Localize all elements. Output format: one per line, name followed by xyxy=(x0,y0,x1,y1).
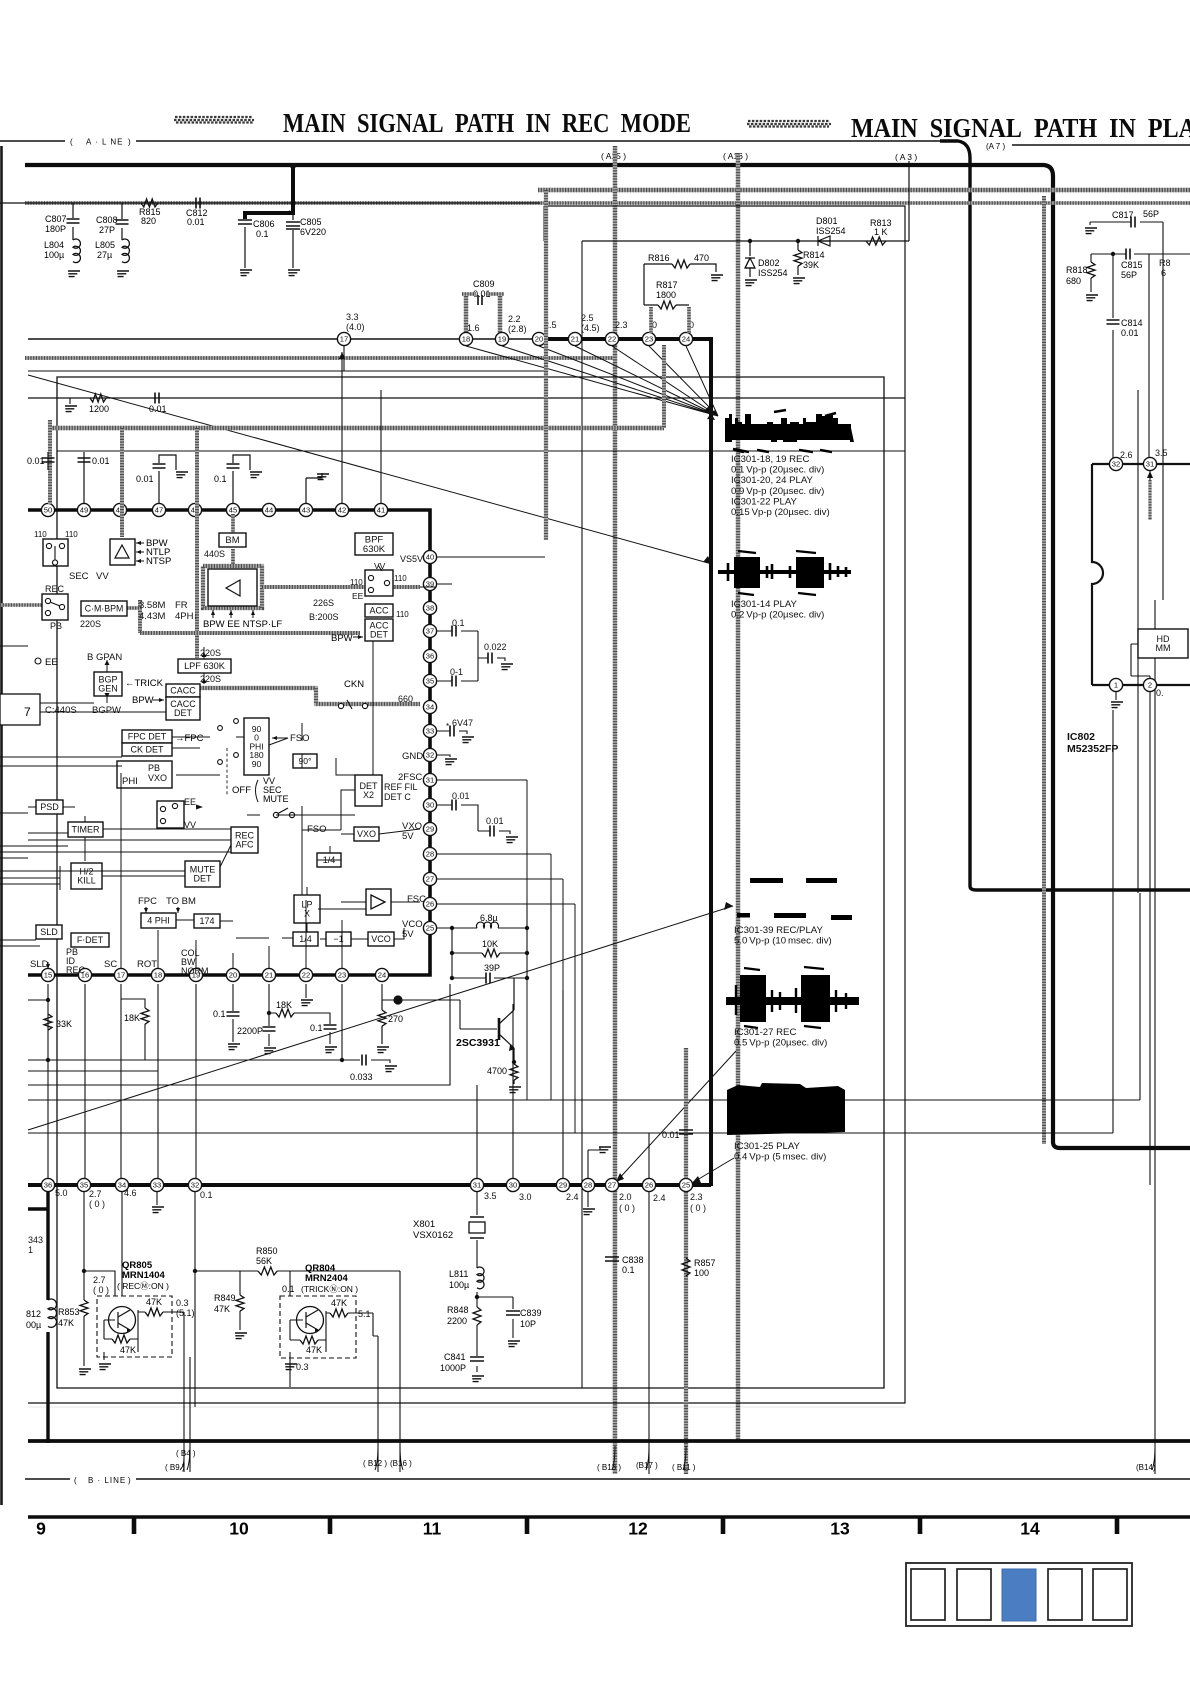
switch CKN xyxy=(338,679,367,709)
resistor R818 xyxy=(1066,262,1095,292)
resistor 18K (pin21) xyxy=(269,1000,330,1044)
node B9 xyxy=(165,1446,190,1472)
svg-text:1.6: 1.6 xyxy=(467,323,480,333)
svg-text:0.01: 0.01 xyxy=(486,816,504,826)
svg-text:56P: 56P xyxy=(1143,209,1159,219)
svg-text:39K: 39K xyxy=(803,260,819,270)
svg-text:31: 31 xyxy=(1146,460,1154,469)
node IC301 pin 36 xyxy=(423,649,436,662)
wire R817 to pin24 (hatched) xyxy=(687,307,691,333)
svg-text:←TRICK: ←TRICK xyxy=(125,678,164,689)
wire B17 drop xyxy=(648,1192,650,1474)
svg-text:812: 812 xyxy=(26,1309,41,1319)
node IC301 pin 24 xyxy=(375,968,388,981)
svg-text:26: 26 xyxy=(426,900,434,909)
svg-text:31: 31 xyxy=(426,776,434,785)
node IC301 pin 29 xyxy=(423,822,436,835)
svg-text:40: 40 xyxy=(426,553,434,562)
svg-text:0.01: 0.01 xyxy=(27,456,45,466)
svg-text:( 0 ): ( 0 ) xyxy=(93,1285,109,1295)
wire pin31 stub xyxy=(1149,471,1151,480)
wire pin15-19 drops xyxy=(48,984,196,1178)
svg-text:*: * xyxy=(446,722,449,731)
svg-text:C815: C815 xyxy=(1121,260,1143,270)
svg-text:30: 30 xyxy=(509,1181,517,1190)
wire hatched vertical A16 xyxy=(736,153,740,1440)
svg-text:PSD: PSD xyxy=(40,802,59,812)
svg-text:ACC: ACC xyxy=(369,606,389,616)
wire hatched 226S to pin39 xyxy=(262,585,420,589)
wire hatched 220S run xyxy=(140,600,360,633)
node A7 xyxy=(986,142,1190,151)
svg-text:32: 32 xyxy=(426,751,434,760)
wire leader diagonal to waveform 3 xyxy=(28,906,733,1130)
svg-text:KILL: KILL xyxy=(77,876,96,886)
node IC301 pin 18 xyxy=(459,332,472,345)
svg-text:VS5V: VS5V xyxy=(400,554,423,564)
wire hatched vertical x546 xyxy=(544,190,548,540)
junction dot xyxy=(393,995,402,1004)
wire B9 drop xyxy=(189,1357,191,1472)
svg-text:47K: 47K xyxy=(306,1345,322,1355)
svg-text:BGPW: BGPW xyxy=(92,705,121,716)
svg-text:( A16 ): ( A16 ) xyxy=(723,151,748,161)
label OFF VV/SEC/MUTE xyxy=(232,776,289,804)
svg-text:4.6: 4.6 xyxy=(124,1188,137,1198)
node IC801 pin 33 xyxy=(150,1178,163,1191)
wire rec path right (thick) xyxy=(540,339,711,1186)
node IC301 pin 17 xyxy=(337,332,350,345)
label waveform 5 xyxy=(734,1141,826,1163)
svg-text:OFF: OFF xyxy=(232,785,251,796)
svg-text:100: 100 xyxy=(694,1268,709,1278)
wire B bus (thick) xyxy=(28,1439,1190,1443)
resistor 10K xyxy=(482,939,500,957)
svg-text:0.01: 0.01 xyxy=(452,791,470,801)
node B16 xyxy=(390,1446,412,1470)
svg-text:R849: R849 xyxy=(214,1293,236,1303)
block F DET xyxy=(71,933,109,947)
capacitor C817 xyxy=(1112,209,1159,228)
svg-text:0.01: 0.01 xyxy=(187,217,205,227)
svg-text:39P: 39P xyxy=(484,963,500,973)
wire pin33 cap xyxy=(436,731,467,734)
svg-text:D801: D801 xyxy=(816,216,838,226)
svg-text:FPC DET: FPC DET xyxy=(128,732,167,742)
wire C809 top (hatched) xyxy=(462,292,504,295)
resistor 270 xyxy=(378,1000,403,1044)
wire pin40 rail xyxy=(436,557,545,584)
block chroma amp (left triangle) xyxy=(208,569,257,606)
capacitor C807 xyxy=(45,203,80,240)
wire hatched pin31 drop xyxy=(1148,480,1151,520)
svg-text:IC301-18, 19 REC: IC301-18, 19 REC xyxy=(731,454,809,465)
block 90deg xyxy=(293,754,317,768)
svg-text:0.022: 0.022 xyxy=(484,642,507,652)
wire hatched pin46 riser xyxy=(195,428,199,658)
svg-text:6: 6 xyxy=(1161,268,1166,278)
capacitor C815 xyxy=(1121,249,1143,281)
svg-text:5.1: 5.1 xyxy=(358,1309,371,1319)
ground (R853) xyxy=(79,1369,91,1375)
svg-text:CACC: CACC xyxy=(170,686,196,696)
capacitor 0.01 (pin25 riser) xyxy=(662,1130,693,1140)
svg-text:18K: 18K xyxy=(124,1013,140,1023)
resistor 47K (QR804 fb) xyxy=(300,1336,322,1355)
svg-text:REC: REC xyxy=(45,584,65,594)
page indicator block xyxy=(906,1563,1132,1626)
svg-text:3.0: 3.0 xyxy=(519,1192,532,1202)
node IC802 pin 31 xyxy=(1143,457,1156,470)
svg-text:17: 17 xyxy=(340,335,348,344)
svg-text:R814: R814 xyxy=(803,250,825,260)
wire pin32 long drop xyxy=(194,1192,196,1407)
capacitor C841 xyxy=(440,1352,484,1373)
svg-text:2.0: 2.0 xyxy=(619,1192,632,1202)
svg-text:220S: 220S xyxy=(80,619,101,629)
svg-text:R8: R8 xyxy=(1159,258,1171,268)
ground (0.033) xyxy=(385,1066,397,1072)
svg-text:35: 35 xyxy=(426,677,434,686)
svg-text:C·M·BPM: C·M·BPM xyxy=(85,604,124,614)
resistor 4700 xyxy=(487,1062,518,1084)
wire pin 31/28/27 rails xyxy=(436,780,563,990)
svg-text:B:200S: B:200S xyxy=(309,612,339,622)
node IC301 pin 42 xyxy=(335,503,348,516)
svg-text:42: 42 xyxy=(338,506,346,515)
svg-text:VV: VV xyxy=(374,561,386,571)
wire hatched amp surround xyxy=(203,566,262,608)
block 1/4 a xyxy=(317,853,341,867)
ground (pin28 above) xyxy=(599,1147,611,1153)
wire hatched vertical right xyxy=(1042,196,1046,1144)
node IC301 pin 33 xyxy=(423,724,436,737)
node IC301 pin 45 xyxy=(226,503,239,516)
svg-text:0.1 Vp-p (20µsec. div): 0.1 Vp-p (20µsec. div) xyxy=(731,465,824,476)
svg-text:2SC3931: 2SC3931 xyxy=(456,1037,500,1049)
svg-text:1: 1 xyxy=(28,1245,33,1255)
wire pin17 stub xyxy=(343,346,345,371)
wire pins29/26/30/31 risers xyxy=(477,990,649,1178)
node IC301 pin 38 xyxy=(423,601,436,614)
svg-text:0.4 Vp-p (5 msec. div): 0.4 Vp-p (5 msec. div) xyxy=(734,1152,826,1163)
svg-text:): ) xyxy=(128,138,131,147)
svg-text:28: 28 xyxy=(584,1181,592,1190)
capacitor 0.01 (pin 49) xyxy=(78,452,110,504)
block 1/4 b xyxy=(293,932,318,946)
ground (pin47 cap) xyxy=(176,472,188,478)
wire xyxy=(47,420,49,470)
svg-text:1800: 1800 xyxy=(656,290,676,300)
svg-text:(2.8): (2.8) xyxy=(508,324,527,334)
svg-text:36: 36 xyxy=(44,1181,52,1190)
svg-text:2.6: 2.6 xyxy=(1120,450,1133,460)
svg-text:0.1: 0.1 xyxy=(200,1190,213,1200)
node IC801 pin 31 xyxy=(470,1178,483,1191)
svg-text:AFC: AFC xyxy=(236,840,255,850)
svg-text:44: 44 xyxy=(265,506,273,515)
ground (pin45 cap) xyxy=(250,472,262,478)
resistor R857 xyxy=(682,1258,716,1278)
svg-text:34: 34 xyxy=(426,703,434,712)
wire hatched pin50 riser xyxy=(48,420,52,504)
svg-text:33K: 33K xyxy=(56,1019,72,1029)
svg-text:C808: C808 xyxy=(96,215,118,225)
block BPF 630K xyxy=(355,533,393,555)
svg-text:R848: R848 xyxy=(447,1305,469,1315)
svg-text:(5.1): (5.1) xyxy=(176,1308,195,1318)
svg-text:43: 43 xyxy=(302,506,310,515)
svg-text:0.: 0. xyxy=(1156,688,1164,698)
svg-text:4700: 4700 xyxy=(487,1066,507,1076)
svg-text:22: 22 xyxy=(608,335,616,344)
svg-text:( B4 ): ( B4 ) xyxy=(176,1449,196,1458)
block VXO xyxy=(354,827,379,841)
wire mesh e xyxy=(307,758,366,932)
op-amp IC802 body xyxy=(1092,464,1190,685)
svg-text:0.3: 0.3 xyxy=(176,1298,189,1308)
svg-text:7: 7 xyxy=(24,705,31,719)
svg-text:VSX0162: VSX0162 xyxy=(413,1230,453,1241)
svg-text:C807: C807 xyxy=(45,214,67,224)
svg-text:21: 21 xyxy=(265,971,273,980)
capacitor 0.1 (pin 45) xyxy=(214,455,250,504)
svg-text:→FPC: →FPC xyxy=(175,733,204,744)
wire long vertical x1138a xyxy=(1137,390,1139,893)
op-amp IC301 body outline xyxy=(28,510,430,975)
resistor R850 xyxy=(256,1246,278,1275)
svg-text:27µ: 27µ xyxy=(97,250,112,260)
wire B12 drop xyxy=(377,1336,379,1472)
svg-text:90°: 90° xyxy=(299,756,312,766)
labels under chroma amp xyxy=(203,610,282,630)
block BGP GEN xyxy=(94,672,122,696)
capacitor C838 xyxy=(605,1255,644,1275)
ruler line xyxy=(28,1515,1190,1518)
wire hatched vertical A15/B13 xyxy=(613,146,617,1474)
capacitor 39P xyxy=(484,963,500,984)
svg-text:2200P: 2200P xyxy=(237,1026,263,1036)
svg-text:FSO: FSO xyxy=(290,733,310,744)
svg-text:14: 14 xyxy=(1020,1519,1040,1539)
block TIMER xyxy=(68,822,103,837)
node IC301 pin 19 xyxy=(189,968,202,981)
wire thick stub xyxy=(28,1207,48,1210)
ground (C806) xyxy=(240,270,252,276)
svg-text:2.4: 2.4 xyxy=(653,1193,666,1203)
ground (C817) xyxy=(1085,228,1097,234)
svg-text:C817: C817 xyxy=(1112,210,1134,220)
svg-text:4 PHI: 4 PHI xyxy=(147,916,170,926)
label waveform 4 xyxy=(734,1027,827,1049)
resistor R814 xyxy=(794,241,825,275)
capacitor 0.1 (pin21 branch) xyxy=(310,1023,337,1033)
node IC301 pin 26 xyxy=(423,897,436,910)
ground (R818) xyxy=(1086,295,1098,301)
node IC301 pin 20 xyxy=(532,332,545,345)
ground (C805) xyxy=(288,270,300,276)
wire QR804 down xyxy=(289,1360,291,1387)
node B14 xyxy=(1136,1446,1156,1472)
svg-text:*: * xyxy=(288,209,291,218)
svg-text:TIMER: TIMER xyxy=(72,825,100,835)
svg-text:2.7: 2.7 xyxy=(89,1189,102,1199)
node B17 xyxy=(636,1446,658,1470)
svg-text:C805: C805 xyxy=(300,217,322,227)
ground (270) xyxy=(377,1047,389,1053)
svg-text:0.1: 0.1 xyxy=(310,1023,323,1033)
svg-text:23: 23 xyxy=(645,335,653,344)
svg-text:MAIN SIGNAL PATH IN REC M: MAIN SIGNAL PATH IN REC MODE xyxy=(283,108,691,138)
svg-text:EE: EE xyxy=(184,797,196,807)
svg-text:2.7: 2.7 xyxy=(93,1275,106,1285)
svg-text:( 0 ): ( 0 ) xyxy=(619,1203,635,1213)
svg-text:(: ( xyxy=(70,138,73,147)
block SLD xyxy=(36,925,62,939)
svg-text:27: 27 xyxy=(608,1181,616,1190)
svg-text:C839: C839 xyxy=(520,1308,542,1318)
wire C809 right leg (hatched) xyxy=(498,296,502,336)
wire long rail y451 xyxy=(57,450,905,452)
node IC801 pin 28 xyxy=(581,1178,594,1191)
node IC801 pin 30 xyxy=(506,1178,519,1191)
svg-text:29: 29 xyxy=(559,1181,567,1190)
wire hatched pin25 riser xyxy=(684,1048,688,1178)
svg-text:680: 680 xyxy=(1066,276,1081,286)
block EE/VV switch xyxy=(157,801,184,828)
wire hatched REC feed xyxy=(0,603,42,607)
svg-text:NTSP: NTSP xyxy=(146,556,171,567)
svg-text:00µ: 00µ xyxy=(26,1320,41,1330)
svg-text:TO BM: TO BM xyxy=(166,896,196,907)
ground (0.1b) xyxy=(325,1047,337,1053)
node IC802 pin 32 xyxy=(1109,457,1122,470)
svg-text:270: 270 xyxy=(388,1014,403,1024)
wire pin33 gnd stub xyxy=(156,1192,158,1205)
svg-text:IC301-22 PLAY: IC301-22 PLAY xyxy=(731,496,798,507)
block DET X2 xyxy=(355,775,382,806)
block -1 xyxy=(326,932,351,946)
svg-text:38: 38 xyxy=(426,604,434,613)
svg-text:R817: R817 xyxy=(656,280,678,290)
wire R817 to pin23 (hatched) xyxy=(649,307,653,333)
block sync separator (triangle) xyxy=(110,539,135,565)
node IC301 pin 21 xyxy=(568,332,581,345)
svg-text:IC301-14 PLAY: IC301-14 PLAY xyxy=(731,599,798,610)
node IC801 pin 32 xyxy=(188,1178,201,1191)
resistor 47K (QR805 emitter) xyxy=(145,1297,163,1316)
svg-text:47K: 47K xyxy=(120,1345,136,1355)
svg-text:R857: R857 xyxy=(694,1258,716,1268)
node B4 xyxy=(176,1449,196,1470)
svg-text:(A 7 ): (A 7 ) xyxy=(986,142,1005,151)
svg-text:10P: 10P xyxy=(520,1319,536,1329)
svg-text:L804: L804 xyxy=(44,240,64,250)
wire crystal chain xyxy=(477,1192,513,1372)
wire enclosure rect 2 xyxy=(28,206,905,1403)
svg-text:21: 21 xyxy=(571,335,579,344)
wire pin42 riser xyxy=(341,352,343,504)
capacitor 0.033 xyxy=(350,1055,373,1083)
wire to 2SC3931 base xyxy=(382,984,497,1029)
svg-text:343: 343 xyxy=(28,1235,43,1245)
node IC301 pin 44 xyxy=(262,503,275,516)
svg-text:10K: 10K xyxy=(482,939,498,949)
resistor R816 xyxy=(644,253,716,272)
block input switch xyxy=(43,539,68,566)
op-amp IC802 label xyxy=(1067,731,1118,755)
capacitor C809 xyxy=(473,279,495,305)
ground (C839) xyxy=(508,1341,520,1347)
wire pin34 to QR805 xyxy=(121,1192,123,1296)
wire pin22 stub xyxy=(305,984,307,998)
svg-text:2200: 2200 xyxy=(447,1316,467,1326)
svg-text:33: 33 xyxy=(153,1181,161,1190)
block FPC DET xyxy=(122,730,172,743)
ground (pin22) xyxy=(301,1000,313,1006)
resistor 47K (QR804 emitter) xyxy=(330,1298,348,1317)
wire long rail y398 xyxy=(28,397,905,399)
ground (D802) xyxy=(745,280,757,286)
svg-text:X801: X801 xyxy=(413,1219,435,1230)
svg-text:DET: DET xyxy=(370,630,389,640)
svg-text:37: 37 xyxy=(426,627,434,636)
wire leader fan from pins 18-24 to waveform 1 xyxy=(466,346,718,420)
svg-text:VXO: VXO xyxy=(148,773,167,783)
svg-text:MM: MM xyxy=(1156,643,1171,653)
ground (2200P) xyxy=(264,1048,276,1054)
waveform IC301-39 REC/PLAY trace xyxy=(737,878,852,920)
svg-text:DET: DET xyxy=(174,708,193,718)
ground (IC802 pin1) xyxy=(1111,702,1123,708)
wire pin30 caps xyxy=(436,805,510,834)
capacitor 0.1 (pin20) xyxy=(213,984,240,1042)
transistor QR805 MRN1404 xyxy=(97,1260,184,1360)
svg-text:): ) xyxy=(128,1476,131,1485)
node IC301 pin 22 xyxy=(299,968,312,981)
svg-text:( 0 ): ( 0 ) xyxy=(690,1203,706,1213)
ruler numbers xyxy=(36,1519,1040,1539)
node EE (left) xyxy=(35,657,58,668)
wire ACC DET to DET X2 xyxy=(373,587,436,775)
block H/2 KILL xyxy=(71,863,102,889)
svg-text:18: 18 xyxy=(154,971,162,980)
wire IC802 feeds xyxy=(1113,254,1149,458)
svg-text:C841: C841 xyxy=(444,1352,466,1362)
svg-text:25: 25 xyxy=(426,924,434,933)
ground (pin33) xyxy=(152,1207,164,1213)
ground (C841) xyxy=(472,1376,484,1382)
ground (pin43) xyxy=(317,474,329,480)
svg-text:11: 11 xyxy=(423,1519,442,1539)
svg-text:27: 27 xyxy=(426,875,434,884)
svg-text:L805: L805 xyxy=(95,240,115,250)
svg-text:4PH↓: 4PH↓ xyxy=(175,611,198,622)
wire hatched B11 drop xyxy=(684,1192,688,1474)
wire A-line top xyxy=(136,140,940,142)
wire page left edge xyxy=(0,146,3,1505)
svg-text:50: 50 xyxy=(44,506,52,515)
svg-text:CKN: CKN xyxy=(344,679,364,690)
svg-text:110: 110 xyxy=(396,610,409,619)
node IC301 pin 35 xyxy=(423,674,436,687)
node A-LINE label xyxy=(0,138,131,147)
svg-text:28: 28 xyxy=(426,850,434,859)
svg-text:9: 9 xyxy=(36,1519,46,1539)
wire IC802 pin1 gnd xyxy=(1115,692,1117,700)
block ACC xyxy=(365,604,393,617)
svg-text:29: 29 xyxy=(426,825,434,834)
